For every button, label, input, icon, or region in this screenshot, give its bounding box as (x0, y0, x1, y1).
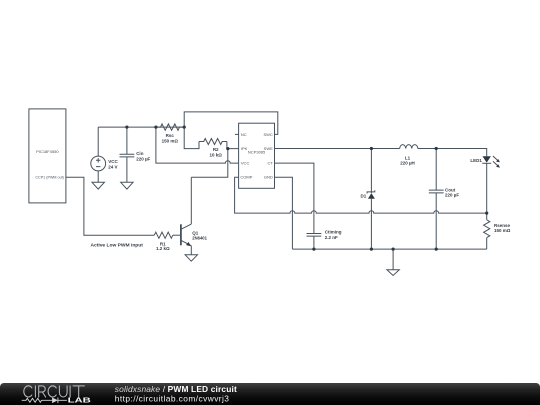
capacitor Cin (120, 127, 135, 182)
svg-text:150 mΩ: 150 mΩ (494, 228, 511, 233)
PIC18F4550 box (29, 109, 66, 203)
svg-text:Active Low PWM input: Active Low PWM input (90, 242, 143, 248)
svg-text:Ctiming: Ctiming (325, 230, 342, 235)
logo CIRCUIT lettering (24, 386, 85, 397)
diode D1 triangle (368, 193, 375, 199)
svg-text:2N6401: 2N6401 (192, 235, 207, 240)
svg-text:220 µF: 220 µF (445, 193, 459, 198)
svg-text:10 kΩ: 10 kΩ (210, 153, 223, 158)
wire R1 to Q1 base (173, 234, 181, 236)
svg-text:NCP3065: NCP3065 (248, 149, 266, 154)
svg-text:http://circuitlab.com/cvwvrj3: http://circuitlab.com/cvwvrj3 (115, 393, 230, 403)
svg-text:R2: R2 (213, 147, 219, 152)
wire feed down to VCC pin with hop (156, 127, 239, 163)
wire GND pin down (275, 177, 293, 249)
junction dot Cout bottom (435, 248, 438, 251)
bottom ground rail (292, 248, 486, 250)
LED1 triangle (483, 156, 491, 162)
ground symbol rail (387, 270, 399, 276)
junction dot D1 top (370, 147, 373, 150)
svg-text:220 µH: 220 µH (400, 160, 415, 165)
svg-text:LED1: LED1 (470, 158, 482, 163)
svg-text:SWC: SWC (263, 132, 272, 137)
junction dot gnd stem (392, 248, 395, 251)
junction dot D1 bottom (370, 248, 373, 251)
capacitor Cout plates (429, 190, 444, 193)
wire COMP down and right to Rsense (hops) (235, 177, 487, 213)
resistor R2 body (199, 139, 227, 145)
svg-text:1.2 kΩ: 1.2 kΩ (156, 246, 170, 251)
junction dot Ctiming bottom (312, 248, 315, 251)
logo diode triangle (52, 398, 58, 404)
transistor Q1 (180, 224, 182, 245)
junction dot Cin (125, 126, 128, 129)
wire junction down to Q1 collector (hop over VCC line) (191, 149, 228, 178)
svg-text:VCC: VCC (108, 159, 118, 164)
svg-text:Rsc: Rsc (166, 133, 175, 138)
VCC source V1 wires (97, 127, 99, 182)
svg-text:220 µF: 220 µF (136, 156, 150, 161)
pin NC stub (235, 133, 239, 135)
svg-text:LAB: LAB (68, 396, 92, 405)
svg-text:NC: NC (241, 132, 247, 137)
wire SWC loop over IC (184, 112, 278, 134)
VCC source circle (91, 156, 106, 171)
logo resistor squiggle and diode (22, 398, 67, 404)
diode D1 schottky bar (367, 190, 375, 193)
wire SWE output row (275, 149, 487, 157)
svg-text:150 mΩ: 150 mΩ (162, 139, 179, 144)
IC U1 NCP3065 box (239, 123, 275, 188)
svg-text:Rsense: Rsense (494, 223, 511, 228)
svg-text:2.2 nF: 2.2 nF (325, 235, 338, 240)
ground rail stem (392, 249, 394, 270)
wire CCP1 to R1 (66, 177, 154, 235)
VCC rail top (98, 126, 184, 128)
svg-text:D1: D1 (361, 194, 367, 199)
wire Cout column (435, 149, 437, 250)
svg-text:PIC18F4550: PIC18F4550 (36, 149, 59, 154)
wire CT to Ctiming (275, 163, 314, 233)
LED1 cathode bar (482, 162, 491, 164)
ground Q1 (185, 255, 197, 261)
inductor L1 (400, 145, 418, 149)
LED arrow heads (496, 159, 500, 162)
wire R2 left step (184, 127, 199, 149)
junction dot IPK (226, 147, 229, 150)
capacitor Ctiming (307, 234, 322, 250)
ground Cin (121, 182, 133, 189)
svg-text:COMP: COMP (240, 175, 252, 180)
resistor Rsense body (484, 220, 490, 238)
svg-text:24 V: 24 V (108, 164, 117, 169)
svg-text:CCP1 (PWM out): CCP1 (PWM out) (35, 175, 64, 180)
junction dot Rsc right (183, 126, 186, 129)
transistor Q1 emitter arrow (186, 242, 191, 246)
svg-text:CT: CT (267, 161, 273, 166)
resistor R1 body (154, 232, 173, 238)
wire LED to Rsense (486, 163, 488, 249)
wire R2 right to IPK (227, 142, 239, 149)
ground VCC (92, 182, 104, 189)
LED light arrows (493, 156, 498, 166)
junction dot Rsense top (485, 212, 488, 215)
svg-text:IPK: IPK (241, 146, 248, 151)
svg-text:GND: GND (264, 175, 273, 180)
resistor Rsc body (156, 124, 184, 130)
wire Q1 collector up (190, 177, 192, 224)
junction dot feed (154, 126, 157, 129)
wire D1 column (370, 149, 372, 250)
wire Q1 emitter to ground (190, 246, 192, 255)
footer bar (0, 383, 540, 405)
junction dot Cout top (435, 147, 438, 150)
svg-text:VCC: VCC (241, 161, 250, 166)
